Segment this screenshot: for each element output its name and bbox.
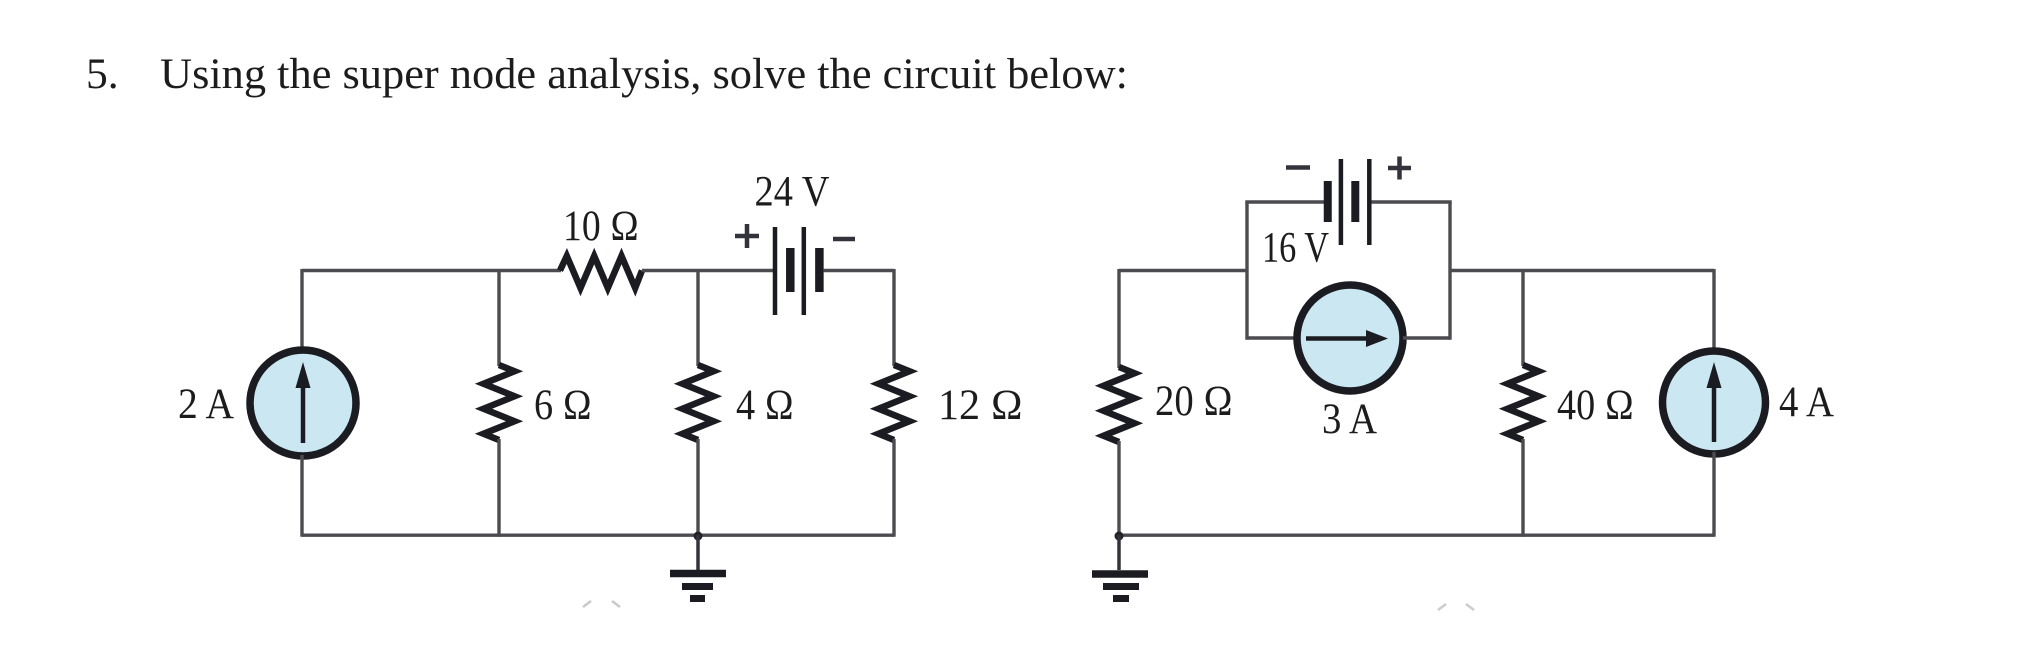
junction node at right circuit ground bbox=[1115, 532, 1124, 541]
current source 3A (circle with right arrow) bbox=[1297, 285, 1403, 391]
wire: 4 ohm branch bottom stub bbox=[696, 439, 699, 537]
svg-text:3 A: 3 A bbox=[1322, 396, 1377, 443]
svg-text:40 Ω: 40 Ω bbox=[1557, 382, 1634, 429]
battery 24V bbox=[775, 227, 819, 315]
wire: top rail between 10 ohm and 24 V battery bbox=[642, 269, 773, 272]
svg-text:12 Ω: 12 Ω bbox=[938, 382, 1023, 429]
junction node at 4 ohm bottom bbox=[694, 532, 703, 541]
label 40 Ω bbox=[1557, 382, 1634, 429]
wire: right circuit bottom rail bbox=[1119, 534, 1714, 537]
wire: left vertical above 2A source bbox=[300, 269, 303, 351]
title text bbox=[86, 50, 1128, 98]
wire: right circuit left vertical top stub bbox=[1117, 269, 1120, 368]
svg-text:10 Ω: 10 Ω bbox=[563, 203, 639, 250]
wire: 40 ohm branch bottom stub bbox=[1521, 439, 1524, 537]
wire: 6 ohm branch top stub bbox=[497, 271, 500, 367]
battery 16V bbox=[1328, 159, 1370, 245]
wire: top rail right of battery to 12 ohm corner bbox=[824, 269, 894, 272]
plus sign of 24V battery bbox=[735, 224, 759, 248]
resistor 12 ohm bbox=[879, 365, 910, 440]
wire: 16V battery wire left segment bbox=[1245, 200, 1324, 203]
wire: 3A source wire right segment bbox=[1403, 336, 1450, 339]
label 12 Ω bbox=[938, 382, 1023, 429]
wire: left vertical below 2A source bbox=[300, 455, 303, 537]
plus sign of 16V battery bbox=[1388, 157, 1411, 180]
wire: left circuit bottom rail bbox=[302, 534, 894, 537]
ground (left circuit) bbox=[670, 535, 726, 599]
ground (right circuit) bbox=[1092, 535, 1148, 599]
minus sign of 16V battery bbox=[1286, 165, 1310, 170]
label 2 A bbox=[178, 381, 234, 428]
wire: 16V battery wire right segment bbox=[1372, 200, 1452, 203]
current source 4A (circle with up arrow) bbox=[1663, 351, 1766, 454]
wire: right circuit left vertical bottom stub bbox=[1117, 441, 1120, 537]
wire: right circuit right vertical above 4A source bbox=[1712, 269, 1715, 352]
wire: 12 ohm branch bottom stub bbox=[892, 439, 895, 537]
label 20 Ω bbox=[1155, 378, 1233, 425]
svg-text:24 V: 24 V bbox=[755, 169, 830, 216]
svg-text:6 Ω: 6 Ω bbox=[534, 382, 592, 429]
resistor 4 ohm bbox=[683, 365, 714, 440]
svg-text:5.: 5. bbox=[86, 50, 119, 98]
faint artifact marks bbox=[583, 601, 620, 607]
wire: right circuit top rail right segment bbox=[1450, 269, 1714, 272]
svg-text:20 Ω: 20 Ω bbox=[1155, 378, 1233, 425]
wire: right circuit top rail left segment bbox=[1119, 269, 1247, 272]
wire: 40 ohm branch top stub bbox=[1521, 271, 1524, 367]
svg-text:16 V: 16 V bbox=[1262, 225, 1329, 272]
resistor 20 ohm bbox=[1104, 367, 1135, 442]
wire: left circuit top rail left segment bbox=[302, 269, 561, 272]
label 3 A bbox=[1322, 396, 1377, 443]
svg-text:2 A: 2 A bbox=[178, 381, 234, 428]
minus sign of 24V battery bbox=[833, 237, 855, 242]
label 10 Ω bbox=[563, 203, 639, 250]
svg-text:4 Ω: 4 Ω bbox=[736, 382, 794, 429]
faint artifact marks right bbox=[1438, 604, 1474, 610]
resistor 6 ohm bbox=[484, 365, 515, 440]
wire: 12 ohm branch top stub bbox=[892, 269, 895, 366]
label 4 Ω bbox=[736, 382, 794, 429]
resistor 10 ohm (horizontal zigzag) bbox=[560, 256, 642, 288]
label 24 V bbox=[755, 169, 830, 216]
wire: 3A source wire left segment bbox=[1247, 336, 1298, 339]
svg-text:Using the super node analysis,: Using the super node analysis, solve the… bbox=[160, 50, 1128, 98]
resistor 40 ohm bbox=[1508, 365, 1539, 440]
label 16 V bbox=[1262, 225, 1329, 272]
label 6 Ω bbox=[534, 382, 592, 429]
current source 2A (circle with up arrow) bbox=[250, 350, 356, 456]
wire: supernode loop left side bbox=[1245, 202, 1248, 340]
svg-text:4 A: 4 A bbox=[1779, 379, 1834, 426]
wire: right circuit right vertical below 4A source bbox=[1712, 452, 1715, 537]
wire: 4 ohm branch top stub bbox=[696, 271, 699, 367]
wire: supernode loop right side bbox=[1448, 202, 1451, 340]
wire: 6 ohm branch bottom stub bbox=[497, 439, 500, 537]
label 4 A bbox=[1779, 379, 1834, 426]
